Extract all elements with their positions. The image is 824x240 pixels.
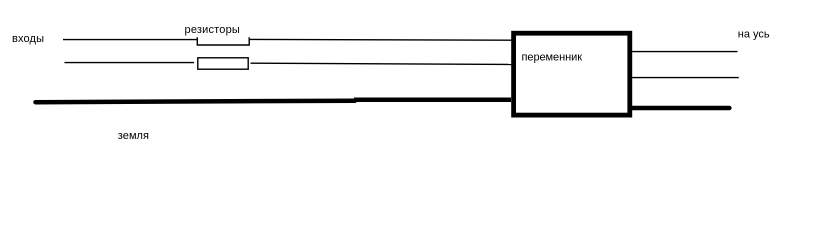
svg-text:земля: земля bbox=[118, 130, 149, 142]
svg-text:переменник: переменник bbox=[522, 52, 583, 64]
svg-text:входы: входы bbox=[12, 33, 44, 45]
svg-text:на усь: на усь bbox=[738, 29, 770, 41]
svg-text:резисторы: резисторы bbox=[185, 24, 240, 36]
